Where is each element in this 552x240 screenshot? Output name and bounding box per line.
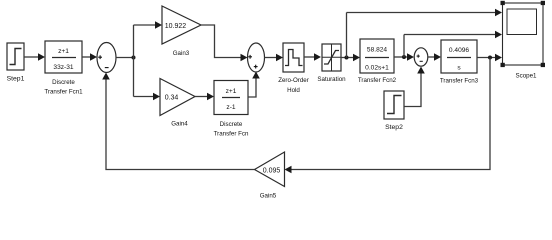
svg-text:z+1: z+1 [58, 48, 69, 55]
step source Step2 [384, 91, 404, 119]
svg-text:0.34: 0.34 [165, 95, 179, 102]
block Zero-Order Hold [283, 43, 304, 72]
wire Sum1 output to branch node [116, 57, 134, 59]
svg-text:Saturation: Saturation [317, 76, 346, 83]
selection handle top-left [501, 1, 505, 5]
wire Sum3 to Transfer Fcn3 [428, 53, 441, 61]
gain Gain4 [160, 79, 195, 116]
wire Gain4 to Discrete Transfer Fcn [195, 93, 214, 101]
svg-text:Gain5: Gain5 [260, 193, 277, 200]
svg-text:Transfer Fcn3: Transfer Fcn3 [440, 78, 479, 85]
selection handle bottom-right [541, 63, 545, 67]
svg-text:Transfer Fcn2: Transfer Fcn2 [358, 77, 397, 84]
label Discrete Transfer Fcn1 [44, 79, 83, 96]
svg-text:10.922: 10.922 [165, 23, 187, 30]
wire Transfer Fcn2 to Sum3 [394, 53, 414, 61]
wire riser to scope middle line [403, 35, 405, 58]
wire top line to Scope1 input 1 [347, 9, 503, 17]
svg-text:Step1: Step1 [7, 76, 25, 83]
svg-text:z-1: z-1 [226, 104, 235, 111]
junction node at Saturation output [345, 56, 349, 60]
svg-text:33z-31: 33z-31 [53, 64, 73, 71]
step source Step1 [7, 43, 24, 70]
wire Gain5 to Sum1 feedback [102, 73, 254, 170]
sum junction Sum1 [97, 43, 116, 73]
svg-text:Zero-Order: Zero-Order [278, 77, 309, 84]
scope Scope1 [503, 3, 544, 65]
wire Step1 to Discrete Transfer Fcn1 [24, 53, 45, 61]
svg-text:Hold: Hold [287, 87, 300, 94]
wire middle line to Scope1 input 2 [404, 31, 502, 39]
svg-text:z+1: z+1 [226, 88, 237, 95]
wire Zero-Order Hold to Saturation [304, 53, 321, 61]
svg-text:Gain4: Gain4 [171, 121, 188, 128]
sum junction Sum2 [248, 43, 265, 72]
wire branch vertical [133, 25, 135, 97]
selection handle top-right [541, 1, 545, 5]
block Discrete Transfer Fcn1 [45, 41, 82, 73]
selection handle bottom-left [501, 63, 505, 67]
svg-text:0.095: 0.095 [263, 168, 281, 175]
block Transfer Fcn3 [441, 40, 477, 73]
wire Step2 to Sum3 [404, 67, 425, 107]
wire Saturation to Transfer Fcn2 [341, 54, 360, 62]
wire Transfer Fcn3 to Scope1 input 3 [477, 54, 502, 62]
svg-text:0.4096: 0.4096 [449, 47, 470, 54]
wire riser to scope top line [346, 13, 348, 58]
label Zero-Order Hold [278, 77, 309, 94]
wire branch to Gain4 [134, 93, 161, 101]
junction node at Transfer Fcn3 output [488, 56, 492, 60]
svg-text:Transfer Fcn: Transfer Fcn [214, 131, 249, 138]
sum junction Sum3 [414, 48, 428, 66]
junction node at Transfer Fcn2 output [402, 55, 406, 59]
svg-text:0.02s+1: 0.02s+1 [365, 65, 389, 72]
svg-text:Scope1: Scope1 [516, 73, 538, 80]
svg-text:Gain3: Gain3 [173, 50, 190, 57]
gain Gain3 [162, 6, 201, 44]
block Saturation [322, 44, 341, 71]
block Transfer Fcn2 [360, 39, 394, 73]
svg-text:Discrete: Discrete [52, 79, 75, 86]
svg-text:58.824: 58.824 [367, 47, 388, 54]
label Discrete Transfer Fcn [214, 121, 249, 138]
svg-text:Discrete: Discrete [220, 121, 243, 128]
wire Discrete Transfer Fcn to Sum2 [248, 72, 260, 98]
block Discrete Transfer Fcn [214, 81, 248, 115]
wire Gain3 to Sum2 [201, 25, 248, 61]
svg-text:Transfer Fcn1: Transfer Fcn1 [44, 89, 83, 96]
junction node after Sum1 [132, 56, 136, 60]
wire Sum2 to Zero-Order Hold [265, 54, 284, 62]
arrow into Gain5 [285, 166, 292, 174]
wire branch to Gain3 [134, 21, 163, 29]
wire Discrete Transfer Fcn1 to Sum1 [82, 53, 97, 61]
gain Gain5 (points left) [255, 152, 285, 187]
svg-text:Step2: Step2 [385, 124, 403, 131]
wire feedback drop [291, 58, 490, 170]
